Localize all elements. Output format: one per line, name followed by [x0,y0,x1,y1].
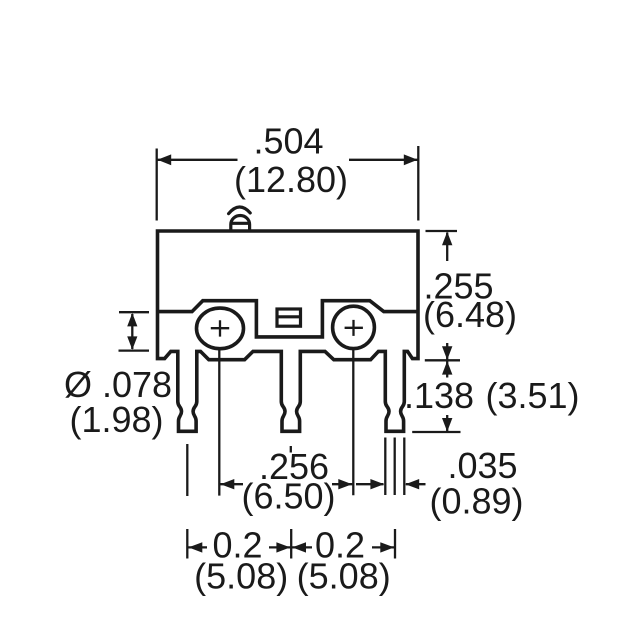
dimension line .255 lower [446,343,448,360]
dimension .256 right arrow tail [332,483,352,485]
dimension double arrow dia .078 [131,314,133,349]
svg-text:.504: .504 [253,121,323,162]
dimension .256 left arrow tail [220,483,243,485]
center window midline [277,315,301,318]
left hole centerline [218,350,220,496]
dimension 0.2 left arrow tail [188,546,207,548]
svg-text:(1.98): (1.98) [69,399,163,440]
interior step line with two plateaus [158,301,419,337]
extension line left of .504 [156,149,158,221]
svg-text:(6.48): (6.48) [423,294,517,335]
dimension line .255 upper [446,233,448,262]
tick right 0.2 [394,529,396,559]
dimension line .504 right segment [349,159,418,161]
arrow 0.2 far left [189,542,203,552]
arrow 0.2 mid pointing left [292,542,306,552]
dimension .035 right arrow tail [406,483,426,485]
left pin centerline extension [186,444,188,496]
tick mid shared .255/.138 [425,359,460,361]
tick lower of dia .078 [119,349,150,351]
dimension line .138 lower [446,415,448,432]
dimension line .138 upper [446,361,448,378]
arrow 0.2 mid pointing right [276,542,290,552]
tick top of .255 [426,230,458,232]
arrow .256 right [338,479,352,489]
svg-text:(5.08): (5.08) [297,556,391,597]
dimension 0.2 mid-left arrow tail [269,546,291,548]
right hole centerline [352,350,354,496]
left hole cross [211,320,229,336]
arrow .035 right pointing left [405,479,419,489]
arrow 0.2 far right [380,542,394,552]
dimension line .504 left segment [157,159,237,161]
plunger dome [231,216,250,232]
svg-text:(12.80): (12.80) [234,159,348,200]
spring arc above plunger [229,207,251,214]
dimension 0.2 right arrow tail [372,546,394,548]
arrow .138 down [442,418,452,432]
arrow .504 left [157,154,171,165]
arrow .255 up [442,232,452,246]
right pin left edge extension [384,438,386,496]
dimension 0.2 mid-right arrow tail [292,546,312,548]
tick upper of dia .078 [119,311,149,313]
right mounting hole [333,306,375,348]
extension line right of .504 [417,146,419,221]
right pin right edge extension [403,438,405,496]
left mounting hole [197,308,244,349]
dimension .035 left arrow tail [356,483,384,485]
svg-text:(3.51): (3.51) [485,375,579,416]
arrow .035 left pointing right [370,479,384,489]
arrow .255 down [442,346,452,360]
switch body outline with three pins [158,231,419,431]
plunger chord line [231,222,249,225]
arrow .078 up [127,313,137,326]
svg-text:(0.89): (0.89) [429,481,523,522]
svg-text:.138: .138 [404,375,474,416]
arrow .078 down [127,336,137,349]
right hole cross [345,320,363,336]
right pin centerline extension [394,438,396,496]
center window rectangle [277,309,301,326]
center pin centerline extension [290,446,292,453]
svg-text:(5.08): (5.08) [194,556,288,597]
arrow .256 left [221,479,235,489]
svg-text:(6.50): (6.50) [241,476,335,517]
tick left 0.2 [186,529,188,559]
arrow .504 right [404,154,418,165]
arrow .138 up [442,361,452,375]
tick bottom of .138 [412,431,460,433]
tick middle 0.2 [290,529,292,559]
